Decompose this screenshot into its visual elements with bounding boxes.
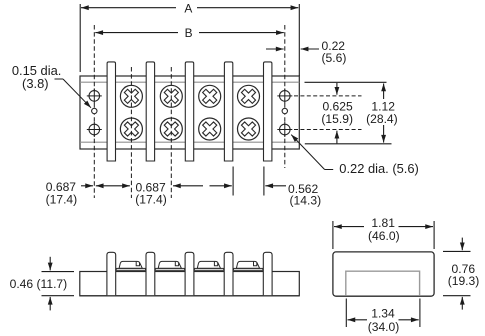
dimension 1.34	[348, 307, 419, 334]
svg-text:(28.4): (28.4)	[366, 112, 398, 126]
mounting hole top-right	[277, 88, 292, 103]
front view post 5	[263, 252, 272, 295]
small hole left	[92, 108, 97, 113]
dimension 0.76 extension bottom	[443, 295, 471, 297]
svg-text:1.34: 1.34	[371, 307, 395, 321]
dimension 1.81 extension left	[332, 221, 334, 249]
svg-text:(15.9): (15.9)	[321, 112, 353, 126]
svg-text:B: B	[185, 26, 193, 40]
svg-text:(34.0): (34.0)	[368, 320, 400, 334]
dimension 0.625	[321, 83, 353, 143]
svg-text:(17.4): (17.4)	[135, 193, 167, 207]
top view inner rail line lower	[80, 141, 299, 143]
screw side profile 1	[119, 261, 142, 268]
side view outer body	[333, 252, 434, 296]
top view body	[80, 76, 299, 149]
barrier 2	[146, 62, 154, 161]
svg-text:(5.6): (5.6)	[322, 51, 347, 65]
screw 1 bottom	[120, 118, 142, 140]
screw 1 top	[120, 85, 142, 107]
extension line 0.562 right	[263, 167, 265, 196]
barrier 4	[224, 62, 232, 161]
svg-text:A: A	[184, 1, 192, 15]
dimension 0.22 top right	[266, 39, 346, 65]
extension line right upper	[305, 81, 387, 83]
svg-text:(14.3): (14.3)	[290, 193, 322, 207]
mounting hole top-left	[87, 88, 102, 103]
screw 2 top	[160, 85, 182, 107]
barrier 3	[185, 62, 193, 161]
dimension A extension line right	[298, 4, 300, 76]
svg-text:0.46 (11.7): 0.46 (11.7)	[10, 277, 68, 291]
centerline screw column 1	[130, 67, 132, 198]
dimension 0.46	[10, 257, 68, 311]
dimension 0.76 extension top	[443, 250, 471, 252]
svg-text:(19.3): (19.3)	[448, 274, 480, 288]
dimension 1.34 extension right	[419, 299, 421, 328]
terminal plate 3	[194, 268, 223, 270]
row centerline lower right	[294, 129, 362, 131]
dimension 0.46 extension bottom	[42, 295, 75, 297]
barrier 1	[107, 62, 115, 161]
extension line right lower	[305, 143, 392, 145]
row centerline upper right	[294, 95, 362, 97]
screw 2 bottom	[160, 118, 182, 140]
dimension 1.81 extension right	[433, 221, 435, 249]
centerline screw column 2	[170, 67, 172, 198]
side view recess	[346, 271, 420, 296]
dimension 0.76	[448, 238, 480, 310]
screw 3 bottom	[199, 118, 221, 140]
front view post 3	[185, 252, 194, 295]
dimension 0.687 first	[46, 180, 130, 206]
centerline left end column	[93, 25, 95, 198]
dimension 1.81	[334, 216, 433, 243]
front view post 2	[146, 252, 155, 295]
label 0.15 dia with leader	[12, 63, 91, 108]
front view base bottom edge	[80, 295, 299, 297]
dimension A extension line left	[79, 4, 81, 72]
svg-text:1.81: 1.81	[371, 216, 395, 230]
svg-text:(46.0): (46.0)	[368, 229, 400, 243]
dimension 0.46 extension top	[42, 271, 75, 273]
front view base	[80, 272, 299, 296]
screw 3 top	[199, 85, 221, 107]
svg-text:(17.4): (17.4)	[46, 193, 78, 207]
dimension 1.12	[366, 84, 398, 143]
mounting hole bottom-left	[87, 122, 102, 137]
dimension 1.34 extension left	[345, 299, 347, 328]
svg-text:0.22 dia. (5.6): 0.22 dia. (5.6)	[339, 161, 419, 176]
dimension B	[95, 26, 283, 40]
screw side profile 4	[236, 261, 259, 268]
terminal plate 2	[155, 268, 184, 270]
small hole right	[282, 108, 287, 113]
barrier 5	[264, 62, 272, 161]
front view post 4	[224, 252, 233, 295]
svg-text:(3.8): (3.8)	[22, 76, 49, 91]
screw 4 bottom	[238, 118, 260, 140]
mounting hole bottom-right	[277, 122, 292, 137]
screw 4 top	[238, 85, 260, 107]
dimension A	[81, 1, 298, 15]
centerline right end column	[284, 25, 286, 168]
top view inner rail line upper	[80, 81, 299, 83]
label 0.22 dia with leader	[291, 135, 419, 176]
dimension 0.562	[265, 182, 321, 207]
screw side profile 3	[197, 261, 220, 268]
terminal plate 4	[234, 268, 263, 270]
extension line 0.562 left	[232, 167, 234, 196]
terminal plate 1	[116, 268, 145, 270]
dimension 0.687 second	[135, 180, 232, 206]
screw side profile 2	[158, 261, 181, 268]
front view post 1	[107, 252, 116, 295]
